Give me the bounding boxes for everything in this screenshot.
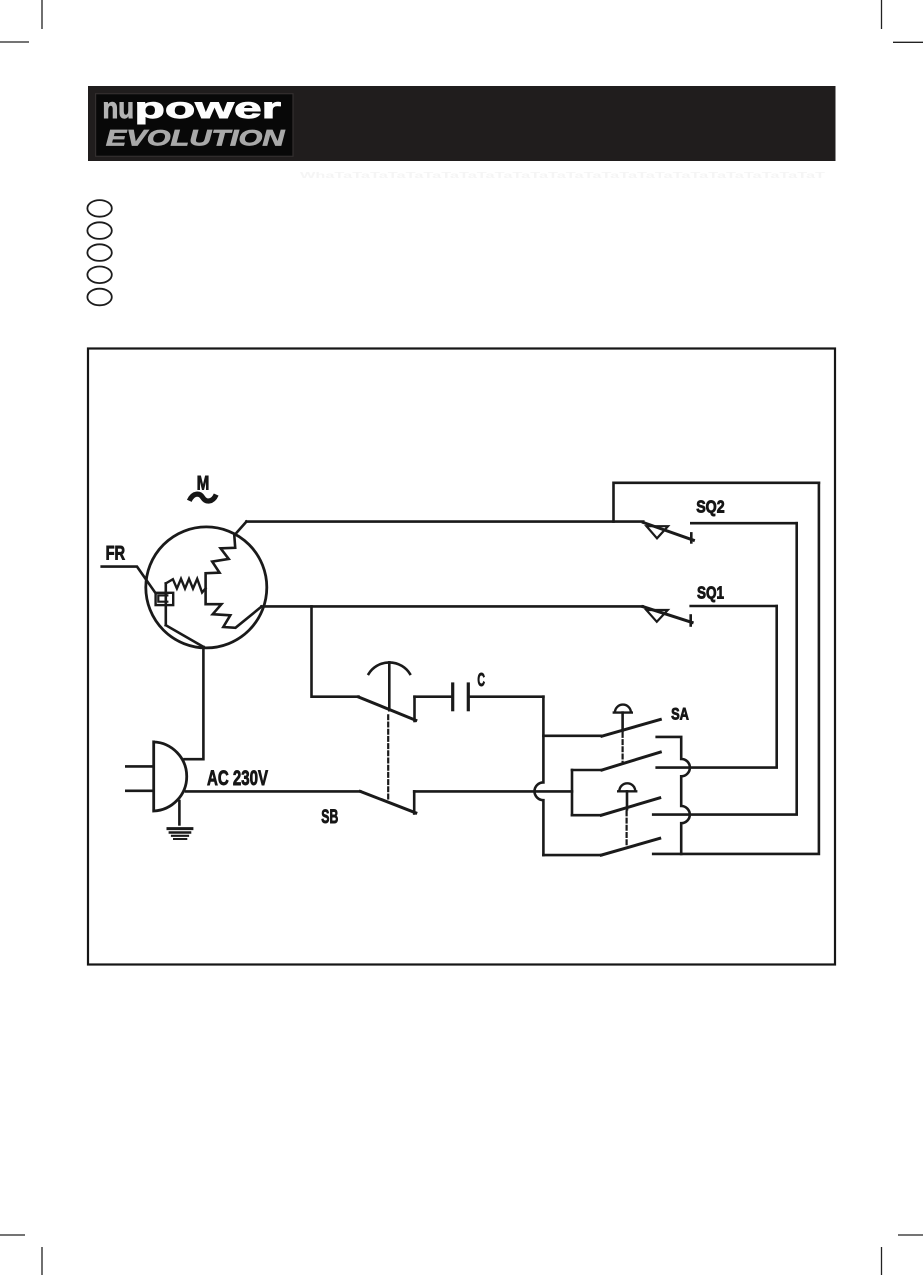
- bullet ellipse 5: [87, 289, 111, 306]
- SA button actuator 2: [618, 783, 636, 791]
- svg-text:M: M: [197, 472, 210, 494]
- plug AC 230V: [154, 742, 187, 811]
- wire SA pole1 right (down link with hops): [657, 737, 690, 854]
- crop mark bottom-right: [882, 1235, 923, 1275]
- wire motor to plug: [185, 647, 204, 759]
- wire motor top to SQ2: [246, 520, 643, 523]
- svg-text:SQ2: SQ2: [696, 497, 725, 517]
- wire SA pole2 left: [572, 769, 602, 772]
- SA gang dashed link 2: [625, 812, 627, 848]
- wire motor bottom diagonal: [166, 625, 204, 647]
- SB upper actuator arc: [369, 662, 410, 673]
- svg-text:SB: SB: [321, 806, 338, 828]
- crop mark top-right: [882, 0, 923, 42]
- wire SA pole3 right to SQ2: [653, 523, 797, 814]
- svg-text:WhaTaTaTaTaTaTaTaTaTaTaTaTaTaT: WhaTaTaTaTaTaTaTaTaTaTaTaTaTaTaTaTaTaTaT…: [300, 170, 827, 180]
- schematic frame: [88, 349, 835, 965]
- wire SA pole3 left: [572, 814, 601, 817]
- svg-text:FR: FR: [106, 543, 126, 565]
- switch SA pole3 blade: [601, 798, 659, 815]
- wire SA pole4 right to top bus: [653, 483, 819, 854]
- crop mark bottom-left: [0, 1235, 42, 1275]
- wire branch down to SB upper pole: [312, 606, 359, 696]
- FR inner contact bracket: [158, 595, 167, 601]
- SB upper fixed contact leg: [413, 697, 416, 721]
- svg-text:power: power: [135, 92, 282, 125]
- wire SB to SA hop: [414, 790, 572, 793]
- wire top bus: [614, 483, 819, 522]
- wire SA pole2 right to SQ1: [657, 606, 777, 768]
- svg-text:EVOLUTION: EVOLUTION: [106, 126, 286, 151]
- crop mark top-left: [0, 0, 42, 42]
- SB gang dashed link: [387, 715, 389, 801]
- switch SA pole1 blade: [602, 720, 660, 737]
- SA gang dashed link 1: [621, 733, 623, 763]
- capacitor C left plate: [451, 684, 454, 710]
- wire FR lead: [102, 567, 156, 594]
- SA button actuator 1: [614, 705, 632, 713]
- motor main winding (stator zigzag): [206, 522, 262, 628]
- switch SA pole4 blade: [601, 838, 659, 855]
- SQ2 fixed contact tick: [690, 533, 693, 542]
- wire SQ1 right terminal: [691, 605, 777, 608]
- svg-text:AC 230V: AC 230V: [207, 766, 268, 790]
- wire SA pole1 left: [543, 734, 602, 737]
- bullet ellipse 3: [87, 244, 111, 261]
- bullet ellipse 2: [87, 222, 111, 239]
- switch SB upper pole blade: [359, 697, 416, 720]
- thermal protector FR body: [156, 593, 174, 605]
- svg-text:SQ1: SQ1: [697, 582, 724, 602]
- SA actuator 2 stem: [626, 791, 629, 809]
- SQ2 roller triangle: [647, 526, 669, 538]
- wire SQ2 right terminal: [691, 522, 796, 525]
- wire FR vertical through body: [165, 583, 168, 625]
- switch SA pole2 blade: [602, 752, 660, 770]
- motor M body: [146, 527, 267, 648]
- label M tilde: [189, 494, 216, 501]
- SB upper actuator stem: [388, 662, 391, 710]
- wire contact to capacitor: [415, 695, 453, 698]
- wire capacitor node down (with hop over SB wire): [535, 697, 544, 855]
- SB fixed contact leg: [413, 791, 416, 813]
- motor auxiliary winding (horizontal zigzag): [166, 579, 206, 593]
- wire SB branch vertical: [571, 770, 574, 815]
- wire AC line to SB: [186, 790, 360, 793]
- SQ1 roller triangle: [646, 610, 668, 622]
- logo plate nupower EVOLUTION: [96, 92, 293, 156]
- wire motor lower to SQ1: [262, 605, 643, 608]
- wire capacitor to node: [468, 695, 543, 698]
- svg-text:nu: nu: [103, 92, 135, 125]
- plug prong upper: [126, 765, 153, 768]
- svg-text:C: C: [477, 669, 485, 690]
- limit switch SQ1 blade: [643, 607, 692, 623]
- ground symbol: [178, 801, 181, 824]
- plug prong lower: [126, 789, 153, 792]
- limit switch SQ2 blade: [643, 523, 693, 541]
- header bar: [88, 86, 836, 161]
- capacitor C right plate: [467, 684, 470, 710]
- switch SB blade: [360, 791, 416, 813]
- bullet ellipse 4: [87, 267, 111, 284]
- bullet ellipse 1: [87, 200, 111, 217]
- SQ1 fixed contact tick: [689, 616, 692, 626]
- svg-text:SA: SA: [671, 704, 689, 723]
- SA actuator 1 stem: [621, 713, 624, 731]
- wire SA pole4 left: [543, 854, 601, 857]
